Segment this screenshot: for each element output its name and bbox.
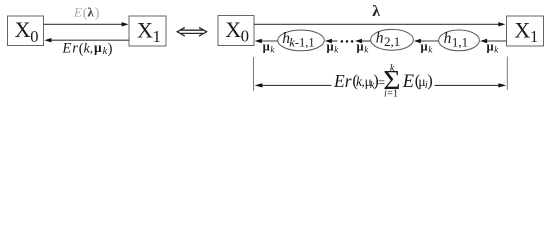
ellipse h_{k-1,1}: [278, 30, 325, 51]
wire: arrow X1 to h_{1,1}: [480, 39, 506, 43]
label mu_k 3: [357, 40, 370, 55]
svg-text:h: h: [444, 30, 452, 47]
iff double arrow: [177, 28, 206, 37]
svg-text:X: X: [15, 17, 31, 42]
wire: dimension arrow left segment: [255, 83, 332, 87]
label mu_k 1: [263, 40, 276, 55]
box X1 (right diagram): [507, 16, 544, 46]
svg-text:X: X: [225, 17, 241, 42]
svg-text:μ: μ: [357, 40, 364, 54]
wire: arrow h_{1,1} to h_{2,1}: [414, 39, 439, 43]
svg-text:0: 0: [30, 27, 38, 46]
svg-text:1,1: 1,1: [452, 35, 468, 50]
wire: top arrow X0 to X1 (left diagram): [44, 22, 129, 26]
svg-text:k-1,1: k-1,1: [289, 36, 314, 50]
svg-text:Er: Er: [61, 40, 79, 56]
svg-text:Er: Er: [333, 71, 352, 91]
svg-text:μ: μ: [421, 40, 428, 54]
svg-text:): ): [427, 71, 433, 90]
svg-text:E: E: [402, 72, 414, 92]
label mu_k 2: [327, 40, 340, 55]
svg-text:0: 0: [241, 27, 249, 46]
svg-text:μ: μ: [94, 40, 102, 55]
label Er(k,mu_k): [61, 40, 112, 57]
svg-text:E: E: [73, 4, 82, 19]
dots between ellipses: [341, 40, 354, 43]
svg-text:μ: μ: [327, 40, 334, 54]
svg-text:μ: μ: [263, 40, 270, 54]
svg-text:λ: λ: [87, 4, 94, 19]
svg-text:k: k: [390, 63, 395, 74]
extension line left (below X0): [253, 57, 255, 91]
box X0 (left diagram): [8, 16, 44, 46]
svg-text:2,1: 2,1: [384, 34, 400, 49]
svg-text:h: h: [376, 29, 384, 46]
label mu_k 5: [487, 40, 500, 55]
wire: dimension arrow right segment: [435, 83, 507, 87]
wire: arrow h_{2,1} to dots: [355, 39, 371, 43]
box X1 (left diagram): [129, 16, 166, 46]
svg-text:): ): [95, 6, 100, 21]
svg-text:1: 1: [530, 27, 538, 46]
label E(lambda): [73, 4, 100, 20]
svg-text:X: X: [137, 18, 153, 43]
svg-text:X: X: [514, 18, 530, 43]
ellipse h_{1,1}: [439, 30, 480, 51]
extension line right (below X1): [506, 57, 508, 90]
label mu_k 4: [421, 40, 434, 55]
label Er(k,mu_k) = sum_{i=1}^{k} E(mu_i): [333, 63, 433, 100]
svg-text:): ): [108, 41, 113, 57]
wire: bottom arrow X1 to X0 (left diagram): [44, 38, 129, 42]
svg-text:i=1: i=1: [384, 88, 398, 99]
svg-text:λ: λ: [372, 3, 380, 20]
svg-text:,: ,: [90, 40, 93, 55]
wire: lambda arrow X0 to X1 (right diagram, top): [254, 22, 505, 26]
wire: arrow h_{k-1,1} to X0: [255, 39, 278, 43]
ellipse h_{2,1}: [371, 29, 414, 50]
svg-text:μ: μ: [487, 40, 494, 54]
wire: arrow dots to h_{k-1,1}: [325, 39, 338, 43]
box X0 (right diagram): [218, 16, 254, 46]
svg-text:1: 1: [153, 27, 161, 46]
